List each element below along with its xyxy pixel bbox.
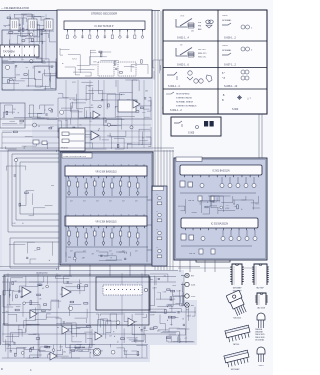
svg-text:2: 2 (75, 164, 76, 166)
svg-text:TONE CONTROL BLOCK: TONE CONTROL BLOCK (63, 156, 87, 158)
svg-text:8 °: 8 ° (222, 72, 225, 75)
svg-text:4k7: 4k7 (70, 251, 73, 253)
svg-text:K4: K4 (168, 318, 170, 320)
svg-text:+1: +1 (156, 247, 158, 249)
svg-text:7kR2: 7kR2 (123, 350, 127, 352)
svg-text:+1: +1 (156, 194, 158, 196)
svg-text:4k7: 4k7 (122, 201, 125, 203)
svg-text:TDA 2002: TDA 2002 (233, 317, 241, 320)
svg-text:38: 38 (69, 99, 71, 101)
svg-text:5: 5 (98, 164, 99, 166)
svg-text:‴: ‴ (163, 131, 165, 133)
svg-text:R37: R37 (50, 126, 53, 128)
svg-text:S-007-1...2: S-007-1...2 (224, 64, 236, 67)
svg-text:IC 501 BA3312N: IC 501 BA3312N (212, 170, 230, 173)
svg-text:2SA-W 8645: 2SA-W 8645 (255, 336, 265, 339)
svg-text:k338: k338 (225, 208, 229, 210)
svg-text:TA7736P: TA7736P (256, 287, 264, 290)
svg-text:EXT: EXT (191, 276, 194, 278)
svg-text:4k7: 4k7 (70, 201, 73, 203)
svg-text:8: 8 (121, 164, 122, 166)
svg-text:4: 4 (90, 164, 91, 166)
svg-text:043k: 043k (172, 285, 176, 287)
svg-text:08: 08 (39, 299, 41, 301)
svg-text:k537: k537 (107, 136, 111, 138)
svg-text:11: 11 (143, 164, 145, 166)
svg-text:10k 1k: 10k 1k (189, 253, 195, 255)
svg-text:5378: 5378 (16, 74, 20, 76)
svg-text:4k7: 4k7 (109, 251, 112, 253)
svg-text:S-001-1...4: S-001-1...4 (177, 37, 189, 40)
svg-text:1: 1 (68, 164, 69, 166)
svg-text:4: 4 (90, 214, 91, 216)
svg-text:4-001: 4-001 (191, 285, 195, 287)
svg-text:D: D (1, 367, 3, 371)
svg-text:9: 9 (128, 164, 129, 166)
svg-text:84: 84 (164, 276, 166, 278)
svg-text:7: 7 (113, 164, 114, 166)
svg-text:10k 1k: 10k 1k (188, 200, 194, 202)
svg-text:2SA-W 8625: 2SA-W 8625 (255, 333, 265, 336)
svg-text:5: 5 (98, 214, 99, 216)
svg-text:1: 1 (68, 214, 69, 216)
svg-text:3: 3 (83, 214, 84, 216)
svg-text:STEREO NORMALS: STEREO NORMALS (176, 105, 197, 108)
svg-text:6: 6 (106, 214, 107, 216)
svg-text:4-002: 4-002 (191, 296, 195, 298)
svg-text:10: 10 (135, 214, 137, 216)
svg-text:85: 85 (65, 120, 67, 122)
svg-text:IC 302 TA7343 P: IC 302 TA7343 P (95, 25, 114, 28)
svg-text:Ck: Ck (111, 253, 113, 255)
svg-text:85: 85 (70, 352, 72, 354)
svg-text:13: 13 (132, 67, 134, 69)
svg-text:4k7: 4k7 (135, 201, 138, 203)
svg-text:2SA564A: 2SA564A (255, 328, 263, 331)
svg-text:7: 7 (113, 214, 114, 216)
svg-text:11: 11 (143, 214, 145, 216)
svg-text:LW: LW (180, 45, 183, 47)
svg-text:AM: AM (198, 28, 201, 31)
svg-text:4k7: 4k7 (96, 201, 99, 203)
svg-text:→: → (10, 156, 12, 158)
svg-text:143: 143 (12, 223, 15, 225)
svg-text:S 904-1...2: S 904-1...2 (170, 109, 182, 112)
svg-text:2SA566A7: 2SA566A7 (255, 331, 263, 334)
svg-text:354: 354 (68, 257, 71, 259)
svg-text:2SC1685A4: 2SC1685A4 (255, 338, 264, 341)
svg-text:k82: k82 (145, 90, 148, 92)
svg-text:TA7240: TA7240 (233, 343, 239, 346)
svg-text:58k: 58k (63, 351, 66, 353)
svg-text:k20: k20 (170, 300, 173, 302)
svg-text:4k7: 4k7 (96, 251, 99, 253)
svg-text:R77: R77 (186, 309, 189, 311)
svg-text:LF-Amplifier: LF-Amplifier (36, 272, 48, 275)
svg-text:10: 10 (135, 164, 137, 166)
svg-text:S-002-1...6: S-002-1...6 (177, 64, 189, 67)
svg-text:— FM-DEMODULATOR: — FM-DEMODULATOR (1, 6, 29, 10)
svg-text:‴: ‴ (163, 123, 165, 125)
svg-text:8:: 8: (222, 98, 224, 102)
svg-text:S 900: S 900 (232, 108, 239, 111)
svg-text:3: 3 (83, 164, 84, 166)
svg-text:+1: +1 (156, 211, 158, 213)
svg-text:SW–OC: SW–OC (198, 57, 206, 59)
svg-text:△ t: △ t (247, 96, 251, 100)
svg-text:VR IC BX BA3812L5: VR IC BX BA3812L5 (95, 221, 117, 224)
svg-text:NORMAL SPACE: NORMAL SPACE (176, 101, 194, 104)
svg-text:STEREO DECODER: STEREO DECODER (91, 12, 117, 16)
svg-text:K2C3: K2C3 (72, 59, 77, 61)
svg-text:LA3 4558: LA3 4558 (257, 307, 265, 310)
svg-text:R14: R14 (158, 292, 161, 294)
svg-text:C3: C3 (226, 205, 228, 207)
svg-text:8: 8 (121, 214, 122, 216)
svg-text:k5: k5 (42, 288, 44, 290)
svg-text:4233: 4233 (187, 316, 191, 318)
svg-text:MOTOR: MOTOR (76, 351, 84, 353)
svg-text:IC 502 BA3312N: IC 502 BA3312N (211, 223, 229, 226)
svg-text:85: 85 (9, 295, 11, 297)
svg-text:S 005: S 005 (188, 132, 195, 135)
svg-text:CR3: CR3 (59, 347, 63, 349)
svg-text:2SB51: 2SB51 (258, 365, 263, 367)
svg-text:·8·: ·8· (222, 93, 225, 97)
svg-text:CASSETTE: CASSETTE (74, 346, 85, 349)
svg-text:OT03: OT03 (180, 16, 184, 18)
svg-text:TA7668AP: TA7668AP (232, 287, 242, 290)
svg-text:33K7: 33K7 (144, 330, 148, 332)
svg-text:03: 03 (38, 126, 40, 128)
svg-text:RCC: RCC (255, 204, 260, 206)
svg-text:8072: 8072 (19, 123, 23, 125)
svg-text:HIGH SPEED: HIGH SPEED (176, 94, 190, 96)
svg-text:6: 6 (106, 164, 107, 166)
svg-text:NORMAL: NORMAL (222, 19, 232, 22)
svg-text:S-008-1...10: S-008-1...10 (224, 85, 238, 88)
svg-text:CR03: CR03 (222, 45, 228, 47)
svg-text:4015: 4015 (7, 305, 11, 307)
svg-text:CC87: CC87 (176, 291, 181, 293)
svg-text:4k7: 4k7 (109, 201, 112, 203)
svg-text:4k7: 4k7 (83, 201, 86, 203)
svg-text:NORMAL: NORMAL (222, 49, 232, 52)
svg-text:CR02: CR02 (222, 15, 228, 17)
svg-text:TA7045M: TA7045M (3, 50, 15, 54)
svg-text:4k7: 4k7 (135, 251, 138, 253)
svg-text:VR IC-BX BA3812L5: VR IC-BX BA3812L5 (95, 171, 117, 174)
svg-text:48: 48 (49, 310, 51, 312)
svg-text:R7: R7 (91, 105, 93, 107)
svg-text:9: 9 (128, 214, 129, 216)
svg-text:STEREO RATIO: STEREO RATIO (176, 97, 192, 100)
svg-text:LW–GO: LW–GO (198, 49, 206, 51)
svg-text:FM: FM (198, 22, 201, 24)
svg-text:FM: FM (198, 26, 201, 28)
svg-text:S 004-1...4: S 004-1...4 (168, 85, 180, 88)
svg-text:S-006-1...2: S-006-1...2 (224, 37, 236, 40)
svg-text:MW–PO: MW–PO (198, 53, 207, 55)
svg-text:84: 84 (26, 67, 28, 69)
svg-text:+1: +1 (156, 229, 158, 231)
svg-text:480: 480 (191, 31, 194, 33)
svg-text:2: 2 (75, 214, 76, 216)
svg-text:02R7: 02R7 (153, 288, 157, 290)
svg-text:127: 127 (109, 335, 112, 337)
svg-text:TA7240AP: TA7240AP (230, 368, 240, 371)
svg-text:5Ck: 5Ck (168, 305, 171, 307)
